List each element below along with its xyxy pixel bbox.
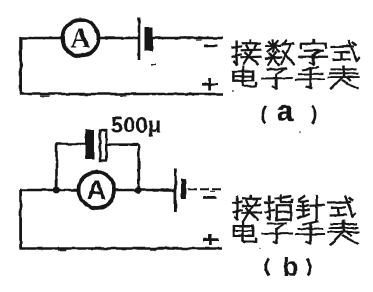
svg-text:A: A [70,24,91,55]
capacitor C1 right plate [100,131,106,162]
ammeter U1 [63,20,99,56]
wire left a [19,37,22,94]
battery B1 long plate [138,18,141,61]
text a line1 接数字式 [233,40,360,65]
text b line1 接指针式 [234,196,356,221]
text a line2 电子手表 [233,67,358,89]
capacitor branch right wire [107,145,139,190]
ammeter U2 [79,172,115,208]
minus label a [204,45,218,48]
label (a) [263,95,316,128]
label (b) [266,251,311,281]
minus label b [204,196,217,199]
wire bottom a [20,93,224,96]
wire left b [19,190,22,249]
wire battery to right terminal b (dashed) [188,188,223,190]
capacitor C1 left plate [86,130,95,160]
svg-text:b: b [283,251,299,281]
paper speckles [40,40,349,251]
plus label b [203,234,219,245]
wire top a [20,37,223,40]
junction dot left [53,187,60,194]
battery B2 short thick plate [181,179,186,200]
svg-text:a: a [277,95,294,128]
battery B2 long plate [174,168,177,212]
text b line2 电子手表 [233,221,358,244]
plus label a [202,78,218,91]
wire bottom b [20,247,223,250]
battery B1 short thick plate [145,27,154,51]
svg-text:A: A [87,175,107,205]
svg-text:500μ: 500μ [111,113,161,138]
wire main b [20,189,175,192]
junction dot right [135,187,142,194]
capacitor branch left wire [55,144,85,190]
